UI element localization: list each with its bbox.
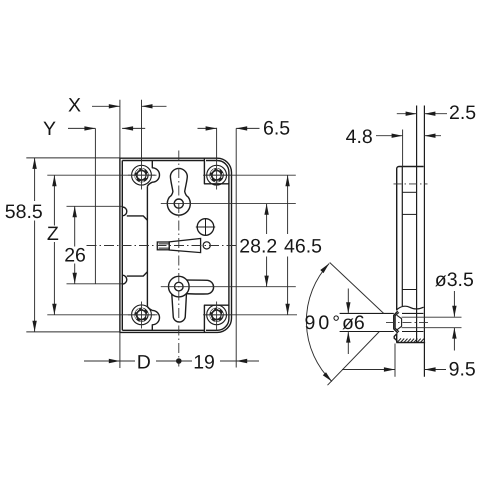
ext line 58.5 top (26, 157, 120, 159)
side slot bottom cap (402, 289, 416, 291)
cam pivot line (161, 286, 296, 288)
arrow 28.2 bottom (264, 276, 268, 287)
arrow o6 top (346, 302, 350, 313)
lock plate inner edge top (122, 160, 204, 162)
screw hole top-right (203, 162, 231, 190)
arrow X right (142, 104, 153, 108)
ext line door edge right (235, 128, 237, 367)
svg-text:58.5: 58.5 (5, 201, 43, 223)
ext line plate left edge (119, 100, 121, 368)
dim 46.5 line (287, 175, 289, 315)
side slot top line (402, 191, 416, 193)
dim Z line (53, 175, 55, 315)
90 deg arc (306, 263, 332, 381)
svg-text:ø3.5: ø3.5 (435, 269, 474, 291)
arrow 4.8 right (425, 134, 436, 138)
lock plate inner edge left (121, 161, 123, 331)
ext line 9.5 left (394, 344, 396, 377)
svg-text:9.5: 9.5 (449, 359, 476, 381)
cam lever boss (169, 276, 190, 297)
arrow 2.5 left (406, 112, 417, 116)
arrow 9.5 left (384, 367, 395, 371)
arrow 46.5 top (285, 175, 289, 186)
arrow 46.5 bottom (285, 304, 289, 315)
svg-text:Y: Y (43, 118, 56, 140)
arrow 58.5 bottom (32, 321, 36, 332)
ext line 26 top (67, 205, 123, 207)
keyhole lever (top) (167, 168, 190, 215)
dim o3.5 lines (453, 291, 455, 351)
side case bottom edge (396, 342, 425, 344)
dim 6.5 lines (198, 127, 260, 129)
dim 26 line (74, 206, 76, 283)
arrow arc bottom (323, 372, 332, 381)
latch tab top (plate edge bump) (122, 207, 126, 216)
cam lever arm (181, 280, 214, 294)
arrow 9.5 right (425, 367, 436, 371)
bolt body wedge (169, 239, 200, 253)
side slot divider (402, 213, 416, 215)
arrowheads front (32, 104, 289, 363)
bolt inner hole lines (3.5) (402, 317, 462, 328)
arrow 19 right (236, 359, 247, 363)
lock plate outer outline (120, 158, 232, 332)
screw hole top-left (128, 162, 155, 190)
bolt side view outer lines (340, 313, 424, 331)
cam lever (bottom, T-shape) (169, 276, 214, 322)
center line vertical (front view) (178, 151, 180, 367)
bolt (front view, middle-left) (157, 239, 200, 253)
arrow X left (109, 104, 120, 108)
arrowheads side (320, 112, 456, 382)
locking pin circle with cross (196, 218, 215, 236)
side case inner wall (401, 167, 403, 307)
arrow o3.5 top (452, 306, 456, 317)
dim D/19 line (84, 360, 259, 362)
arrow 26 top (73, 206, 77, 217)
cover plate slot around bottom-left screw (147, 306, 159, 330)
lock plate inner corner bottom-right (206, 305, 229, 330)
ext line screw col right (216, 128, 218, 162)
svg-text:19: 19 (193, 352, 215, 374)
90 deg leg lower (328, 332, 380, 386)
svg-text:26: 26 (64, 245, 86, 267)
center line horizontal (front view) (87, 245, 240, 247)
latch face top chamfer (127, 216, 148, 220)
cover plate slot around top-left screw (147, 161, 159, 187)
svg-text:28.2: 28.2 (239, 236, 277, 258)
screw hole bottom-left (128, 302, 155, 329)
dim 2.5 lines (397, 113, 447, 115)
dim o6 lines (347, 289, 349, 355)
ext line Y reference (94, 128, 96, 284)
ext line 26 bottom (67, 283, 123, 285)
lock plate inner corner top-right (206, 161, 229, 185)
bolt head (157, 242, 169, 250)
small pin circle (203, 242, 210, 249)
flange (mounting plate) lines (416, 106, 418, 343)
arrow arc top (320, 263, 329, 273)
svg-text:ø6: ø6 (342, 312, 365, 334)
ext line screw col left (141, 100, 143, 162)
ext line 4.8 left (402, 130, 404, 167)
arrow 6.5 left (206, 126, 217, 130)
bolt center line (386, 321, 431, 323)
svg-text:6.5: 6.5 (263, 117, 290, 139)
side case left edge below bolt (396, 333, 398, 342)
arrow Y right (122, 126, 133, 130)
cam lever stem (172, 291, 187, 322)
dim 9.5 lines (342, 369, 446, 371)
arrow 6.5 right (236, 126, 247, 130)
arrow o6 bottom (346, 332, 350, 343)
dim node dot D/19 (176, 358, 182, 364)
bolt nose (chamfered) (394, 311, 402, 333)
arrow 26 bottom (73, 273, 77, 284)
arrow 2.5 right (424, 112, 435, 116)
svg-text:X: X (68, 94, 81, 116)
hatch band at case bottom (398, 338, 425, 342)
dim X lines (92, 105, 167, 107)
side case top + left edge (397, 167, 424, 311)
latch tab bottom (plate edge bump) (122, 275, 126, 284)
bottom foot chamfer (394, 334, 397, 341)
cover plate left edge (146, 186, 148, 306)
svg-text:Z: Z (47, 223, 59, 245)
lock plate inner edge right (228, 184, 230, 305)
cover plate notch top-right (204, 158, 229, 184)
screw hole bottom-right (203, 302, 231, 331)
svg-text:2.5: 2.5 (449, 102, 476, 124)
svg-text:90°: 90° (305, 312, 344, 334)
lock plate inner edge bottom (122, 329, 204, 331)
arrow D left (109, 359, 120, 363)
dim 28.2 line (266, 204, 268, 287)
90 deg leg upper (330, 263, 384, 314)
arrow o3.5 bottom (452, 328, 456, 339)
arrow 58.5 top (32, 158, 36, 169)
arrow Z top (52, 175, 56, 186)
top screw axis line (47, 174, 295, 176)
ext line 58.5 bottom (26, 331, 120, 333)
arrow Z bottom (52, 304, 56, 315)
latch face bottom chamfer (127, 272, 148, 276)
side break wavy line (397, 306, 424, 310)
cover plate notch bottom-right (204, 305, 229, 332)
svg-text:D: D (137, 352, 151, 374)
svg-text:4.8: 4.8 (346, 126, 373, 148)
arrow Y left (84, 126, 95, 130)
dim Y lines (68, 127, 145, 129)
svg-text:46.5: 46.5 (284, 236, 322, 258)
bottom screw axis line (47, 314, 297, 316)
dim 4.8 lines (376, 135, 441, 137)
keyhole pivot line (161, 203, 296, 205)
side view screw-height center mark (394, 183, 428, 185)
dim 58.5 line (34, 158, 36, 332)
arrow 28.2 top (264, 204, 268, 215)
arrow 4.8 left (392, 134, 403, 138)
